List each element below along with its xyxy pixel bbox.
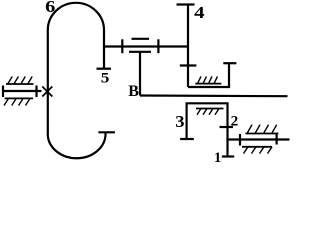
output shaft bottom right bbox=[228, 138, 290, 140]
gear 5 end bar bbox=[97, 68, 112, 70]
left bearing lower hatch strokes bbox=[4, 98, 30, 105]
revolute joint X on link 6 bbox=[42, 87, 52, 97]
link 6 stirrup outline bbox=[48, 3, 106, 158]
gear lower bar on vertical stem bbox=[129, 51, 151, 53]
output bearing upper hatch strokes bbox=[247, 125, 277, 134]
output bearing lower hatch strokes bbox=[244, 147, 273, 154]
output shaft tick right bbox=[276, 133, 278, 145]
shaft 4 top end bar bbox=[177, 3, 195, 5]
svg-text:3: 3 bbox=[175, 112, 184, 131]
svg-text:4: 4 bbox=[194, 3, 205, 22]
output bearing upper ground line bbox=[246, 133, 279, 135]
svg-text:B: B bbox=[128, 83, 139, 100]
left bearing upper ground line bbox=[6, 83, 34, 85]
left bearing upper hatch strokes bbox=[8, 77, 33, 85]
gear 3 end bar bbox=[180, 138, 194, 140]
shaft B horizontal line bbox=[140, 94, 288, 97]
frame bracket 3-1 top bbox=[187, 103, 228, 156]
svg-text:2: 2 bbox=[231, 114, 239, 130]
left shaft end tick left bbox=[2, 86, 4, 98]
bracket hatch strokes bbox=[197, 109, 219, 115]
left shaft end tick right bbox=[35, 86, 37, 98]
gear upper bar on vertical stem bbox=[132, 38, 150, 40]
gear tick right on shaft 5-4 bbox=[157, 39, 159, 53]
left bearing lower ground line bbox=[5, 97, 33, 99]
output bearing lower ground line bbox=[242, 146, 272, 148]
svg-text:5: 5 bbox=[101, 71, 110, 87]
shaft 4 vertical bbox=[187, 5, 189, 88]
svg-text:1: 1 bbox=[214, 150, 221, 166]
gear 2 tick on shaft 1 bbox=[220, 126, 234, 128]
output shaft tick left bbox=[239, 134, 241, 146]
gear tick on shaft 4 bbox=[180, 64, 197, 66]
left input shaft bbox=[3, 90, 42, 92]
horizontal shaft 5-4 bbox=[104, 45, 188, 47]
gear tick left on shaft 5-4 bbox=[121, 39, 123, 53]
svg-text:6: 6 bbox=[45, 0, 55, 16]
bearing box hatch strokes bbox=[198, 76, 218, 83]
shaft 1 bottom end bar bbox=[222, 155, 234, 157]
bearing box right end bar bbox=[223, 62, 236, 64]
link 6 hook end cap bbox=[98, 131, 115, 133]
bearing box ground line bbox=[195, 83, 221, 85]
vertical stem to shaft B bbox=[139, 52, 141, 96]
bracket ground line bbox=[196, 108, 224, 110]
bearing box bottom for shaft 4 bbox=[188, 63, 229, 87]
